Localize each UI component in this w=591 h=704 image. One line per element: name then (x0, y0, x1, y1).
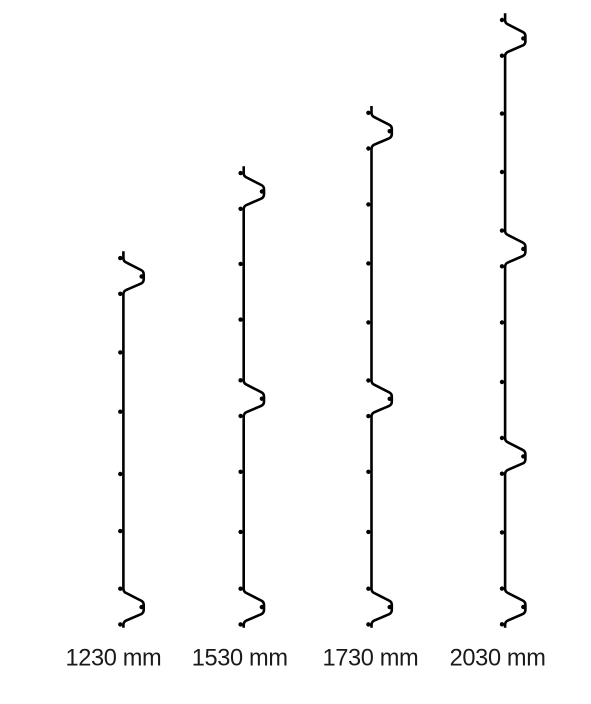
mounting holes on 2030 mm rail (500, 18, 526, 627)
svg-text:2030 mm: 2030 mm (450, 646, 546, 672)
post profile 1530 mm rail (244, 166, 264, 628)
mounting holes on 1730 mm rail (366, 111, 392, 627)
svg-text:1530 mm: 1530 mm (192, 646, 288, 672)
post profile 2030 mm rail (505, 13, 525, 628)
post profile 1730 mm rail (372, 106, 392, 628)
mounting holes on 1530 mm rail (238, 171, 264, 627)
svg-text:1730 mm: 1730 mm (322, 646, 418, 672)
mounting holes on 1230 mm rail (118, 256, 144, 627)
svg-text:1230 mm: 1230 mm (65, 646, 161, 672)
post profile 1230 mm rail (123, 251, 143, 628)
